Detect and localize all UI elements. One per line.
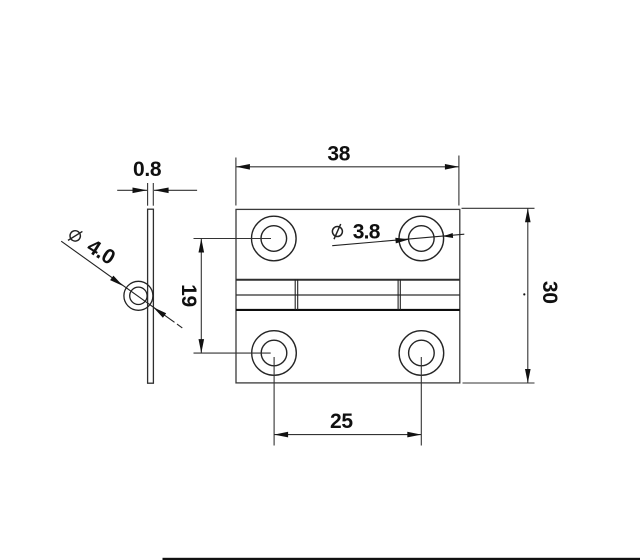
dimension 30 arrow bottom [525, 369, 531, 383]
dimension 19 arrow bottom [199, 339, 205, 353]
side view plate [148, 209, 154, 383]
hole diameter arrow left [395, 238, 409, 244]
knuckle diameter leader line [61, 241, 174, 322]
hole diameter symbol [332, 224, 342, 239]
knuckle diameter label [65, 224, 119, 270]
dimension 30 height [462, 208, 535, 383]
front view hinge plate outline [236, 209, 460, 383]
dimension 25 hole spacing horizontal [274, 357, 421, 446]
knuckle joint left line a [294, 280, 296, 310]
knuckle band bottom line [236, 309, 460, 311]
svg-text:3.8: 3.8 [353, 220, 381, 243]
dimension 25 arrow left [274, 432, 288, 438]
hole bottom-right [399, 331, 444, 376]
knuckle joint right line b [399, 280, 401, 310]
dimension 19 hole spacing vertical [194, 239, 272, 354]
hole diameter arrow right [443, 233, 453, 238]
svg-text:25: 25 [330, 410, 353, 433]
knuckle diameter arrow upper [110, 276, 123, 286]
knuckle diameter arrow lower [153, 307, 166, 318]
page border bottom line [163, 558, 640, 560]
dimension 0.8 arrow left [133, 188, 148, 194]
dimension 25 arrow right [407, 432, 421, 438]
hole top-right [399, 216, 444, 261]
dimension 0.8 thickness [117, 183, 197, 206]
svg-text:38: 38 [327, 143, 350, 166]
dimension 38 arrow left [236, 164, 250, 170]
dimension 30 arrow top [525, 208, 531, 222]
side view knuckle outer circle [124, 281, 153, 310]
knuckle diameter leader dash [177, 324, 182, 328]
knuckle joint left line b [297, 280, 299, 310]
stray dot [523, 293, 525, 295]
hole bottom-left [252, 331, 297, 376]
hole top-left [251, 216, 296, 261]
dimension 38 arrow right [445, 164, 459, 170]
svg-text:0.8: 0.8 [133, 158, 162, 181]
svg-text:19: 19 [177, 284, 200, 307]
knuckle joint right line a [397, 280, 399, 310]
dimension 19 arrow top [199, 239, 205, 253]
hole diameter leader line [332, 234, 464, 246]
knuckle band top line [236, 279, 460, 281]
dimension 38 width [236, 156, 459, 206]
knuckle band middle line [236, 294, 460, 296]
side view knuckle inner circle [130, 287, 147, 304]
dimension 0.8 arrow right [154, 188, 169, 194]
svg-text:30: 30 [538, 281, 561, 304]
